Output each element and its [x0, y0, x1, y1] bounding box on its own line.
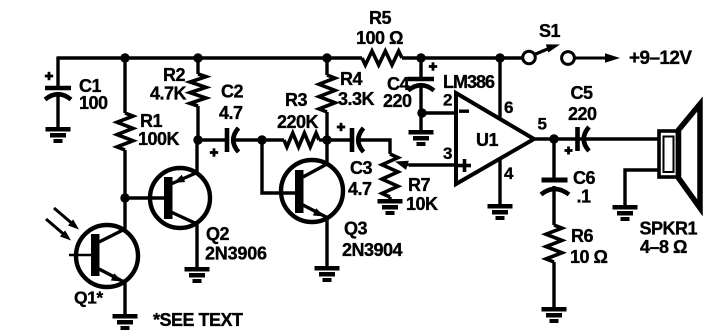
svg-text:5: 5 [538, 115, 547, 134]
capacitor C3 [337, 123, 364, 152]
svg-text:C6: C6 [573, 168, 595, 188]
node junction R1 / Q2 base / Q1 collector [120, 193, 129, 202]
resistor R4 [319, 75, 335, 112]
label C4 value [383, 74, 412, 111]
svg-text:SPKR1: SPKR1 [640, 219, 698, 239]
svg-text:4: 4 [504, 164, 514, 183]
svg-text:4–8 Ω: 4–8 Ω [640, 237, 687, 257]
transistor Q2 [125, 168, 210, 228]
svg-text:6: 6 [504, 98, 513, 117]
node junction top rail / R1 [120, 53, 129, 62]
svg-text:R1: R1 [140, 111, 162, 131]
wire C6 to R6 [552, 186, 555, 225]
label Q1 [74, 288, 103, 308]
label C2 value [219, 82, 243, 124]
resistor R1 [117, 113, 133, 150]
wire C1 bottom lead [56, 93, 59, 128]
label C5 value [568, 83, 597, 124]
wire C6 top lead [552, 139, 555, 180]
label R3 value [277, 90, 319, 132]
wire C3 left lead [327, 138, 352, 141]
svg-text:R4: R4 [340, 69, 362, 89]
label pin 6 [504, 98, 513, 117]
ground R6 [542, 307, 567, 323]
wire speaker return [625, 170, 659, 206]
svg-text:100: 100 [79, 93, 108, 113]
resistor R3 [284, 133, 319, 147]
wire C4 to pin2 node [419, 84, 422, 131]
svg-text:100K: 100K [138, 129, 180, 149]
resistor R5 [362, 51, 402, 65]
wire Q3 collector lead [325, 140, 328, 165]
svg-text:100 Ω: 100 Ω [356, 28, 403, 48]
wire R2 top lead [196, 58, 199, 74]
svg-text:220: 220 [383, 91, 412, 111]
label pin 3 [443, 144, 452, 163]
svg-text:R3: R3 [285, 90, 307, 110]
speaker SPKR1 [659, 104, 700, 208]
node junction pin5 / C6 [549, 134, 558, 143]
label C1 value [79, 76, 108, 113]
wire R2 to C2 node [196, 106, 199, 142]
switch S1 arm [535, 44, 561, 54]
svg-text:.1: .1 [577, 187, 592, 207]
wire C1 top lead [56, 56, 59, 87]
label Q3 [342, 219, 403, 261]
label pin 5 [538, 115, 547, 134]
ground C4 [409, 130, 434, 146]
svg-text:Q1*: Q1* [74, 288, 103, 308]
wire Q2 emitter to C2 node [195, 140, 198, 174]
wire pin 6 supply [498, 58, 501, 119]
capacitor C1 [45, 72, 71, 100]
node junction R2 / C2 / Q2 emitter [193, 135, 202, 144]
capacitor C5 [565, 127, 590, 155]
wire C2 right lead [233, 138, 262, 141]
node junction R3 / R4 / C3 / Q3 collector [322, 135, 331, 144]
label see-text note [153, 310, 243, 330]
resistor R2 [190, 74, 206, 106]
svg-text:R2: R2 [163, 65, 185, 85]
svg-text:C2: C2 [221, 82, 243, 102]
resistor R6 [546, 225, 562, 262]
svg-text:R7: R7 [408, 175, 430, 195]
label pin 2 [443, 91, 452, 110]
wire C2 left lead [198, 138, 227, 141]
wire Q1 emitter to ground [123, 281, 126, 315]
svg-text:4.7: 4.7 [348, 179, 372, 199]
svg-text:2N3906: 2N3906 [205, 244, 267, 264]
svg-text:10K: 10K [406, 194, 438, 214]
switch S1 throw contact [562, 52, 575, 65]
wire C4 top lead [419, 58, 422, 80]
wire Q3 emitter to ground [325, 217, 328, 267]
ground C1 [46, 127, 71, 143]
wire Q2 collector to ground [195, 223, 198, 268]
wire R6 to ground [552, 262, 555, 308]
svg-text:3: 3 [443, 144, 452, 163]
svg-text:R6: R6 [571, 226, 593, 246]
svg-text:LM386: LM386 [443, 72, 495, 92]
label U1 [476, 130, 498, 150]
wire R3 left lead [262, 138, 284, 141]
transistor Q3 [262, 140, 343, 222]
resistor R7 potentiometer [382, 154, 398, 197]
label +9-12V supply [629, 48, 692, 69]
label R7 value [406, 175, 438, 214]
ground Q2 [185, 267, 210, 283]
wire R7 bottom lead [388, 197, 391, 200]
wire Q1 collector lead [123, 198, 126, 230]
svg-text:*SEE TEXT: *SEE TEXT [153, 310, 243, 330]
op-amp U1 plus input mark [458, 159, 471, 172]
label R4 value [338, 69, 375, 109]
wire pin 2 input [421, 111, 456, 114]
svg-text:S1: S1 [539, 21, 561, 41]
wire R1 top lead [123, 58, 126, 113]
label LM386 [443, 72, 495, 92]
svg-text:Q2: Q2 [206, 224, 230, 244]
ground R7 [378, 199, 403, 215]
ground U1 pin 4 [488, 204, 513, 220]
svg-text:+9–12V: +9–12V [629, 48, 692, 69]
label C3 value [348, 158, 372, 199]
wire pin 5 output [534, 137, 658, 140]
wire C3 to R7 [358, 140, 390, 154]
svg-text:10 Ω: 10 Ω [570, 247, 608, 267]
capacitor C2 [210, 128, 239, 157]
label S1 [539, 21, 561, 41]
svg-text:2: 2 [443, 91, 452, 110]
label R1 value [138, 111, 180, 149]
wire S1 to supply arrow [574, 53, 620, 63]
svg-text:R5: R5 [369, 8, 391, 28]
capacitor C6 [541, 180, 569, 195]
svg-text:2N3904: 2N3904 [342, 240, 403, 260]
svg-text:220: 220 [568, 104, 597, 124]
transistor Q1 [69, 225, 138, 287]
wire R3 right lead [319, 138, 327, 141]
svg-text:3.3K: 3.3K [338, 89, 375, 109]
node junction top rail / R4 [322, 53, 331, 62]
label R5 value [356, 8, 403, 48]
svg-text:U1: U1 [476, 130, 498, 150]
ground speaker [613, 205, 638, 221]
op-amp U1 minus input mark [459, 110, 469, 113]
svg-text:220K: 220K [277, 112, 319, 132]
ground Q3 [315, 266, 340, 282]
wire +V rail left segment (C1 to R5) [58, 56, 362, 59]
label C6 value [573, 168, 595, 207]
wire R4 top lead [325, 58, 328, 75]
svg-text:4.7K: 4.7K [150, 84, 187, 104]
switch S1 pole contact [523, 51, 536, 64]
node junction top rail / C4 [416, 53, 425, 62]
wire pin 3 input [395, 161, 456, 170]
wire +V rail right segment (R5 to S1) [402, 56, 523, 59]
ground Q1 [113, 314, 138, 330]
svg-text:C3: C3 [350, 158, 372, 178]
node junction top rail / pin6 [495, 53, 504, 62]
svg-text:4.7: 4.7 [219, 103, 243, 123]
svg-text:C5: C5 [571, 83, 593, 103]
node junction C2 / R3 / Q3 base [257, 135, 266, 144]
wire R4 bottom lead [325, 112, 328, 140]
label pin 4 [504, 164, 514, 183]
label Q2 [205, 224, 267, 264]
wire pin 4 to ground [498, 159, 501, 205]
label R2 value [150, 65, 187, 104]
light arrows into Q1 [46, 208, 79, 241]
node junction top rail / R2 [193, 53, 202, 62]
capacitor C4 [408, 62, 437, 90]
label R6 value [570, 226, 608, 267]
node junction C4 / pin2 [417, 108, 426, 117]
op-amp U1 triangle [456, 93, 534, 184]
svg-text:Q3: Q3 [344, 219, 368, 239]
wire R1 to Q1/Q2 node [123, 150, 126, 198]
label SPKR1 [640, 219, 698, 258]
